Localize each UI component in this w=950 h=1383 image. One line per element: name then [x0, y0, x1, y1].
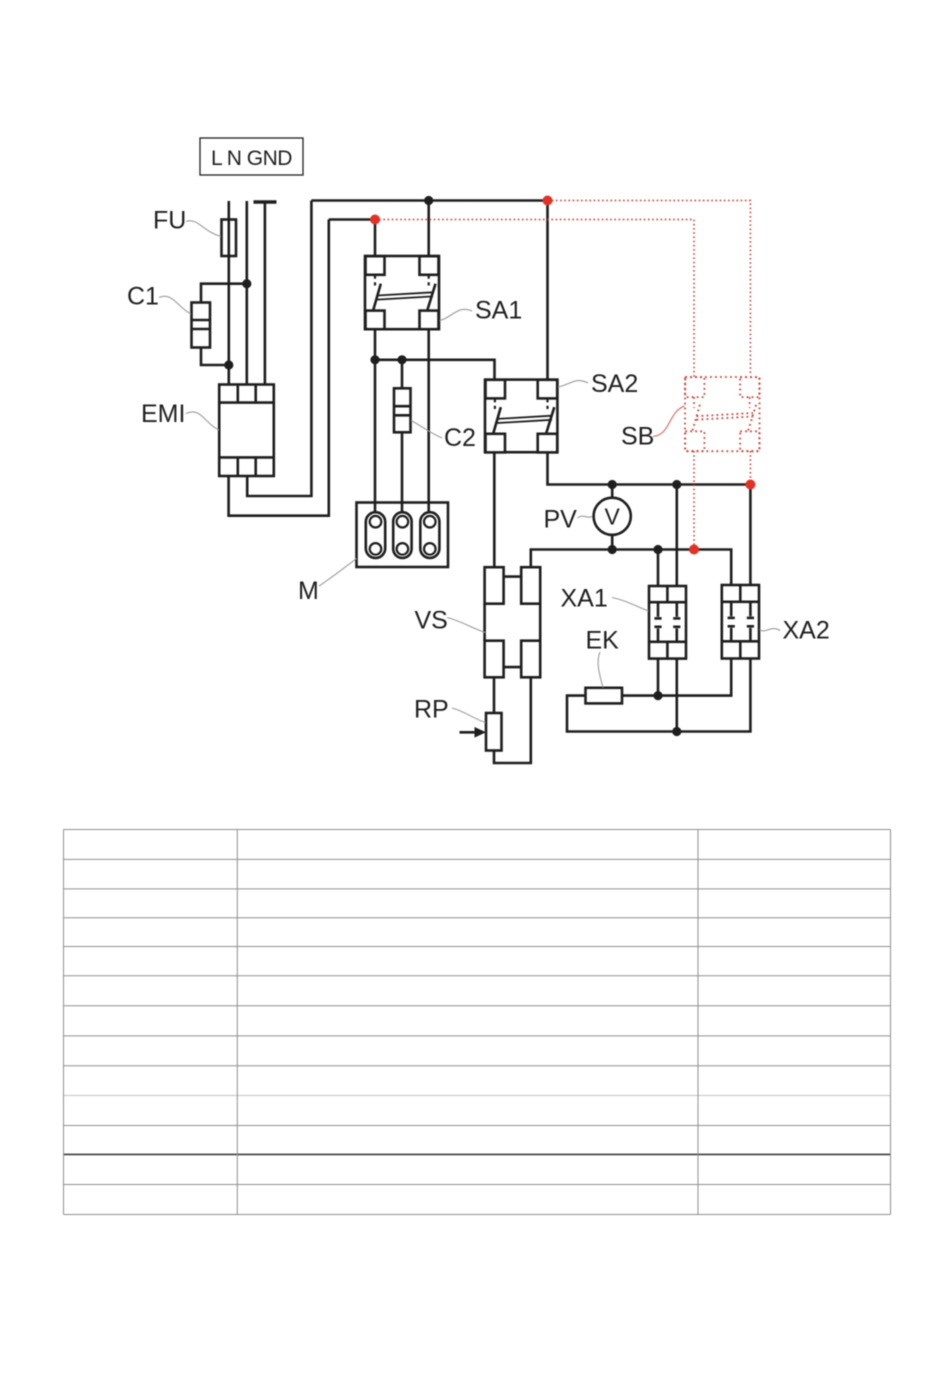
red dotted circuit [375, 201, 750, 550]
node SA1 bottom left junction [370, 355, 379, 364]
svg-text:C1: C1 [127, 283, 159, 311]
svg-text:EK: EK [586, 627, 620, 655]
wire SA2 right pin top [546, 201, 549, 381]
node red XA2 junction [745, 480, 755, 490]
wire lower bus from VS to XA2 [531, 550, 731, 586]
wire red dotted SB right pin lower [749, 451, 751, 485]
wire SA1 right pin to motor [427, 329, 430, 512]
wire rail 1 top [311, 199, 547, 202]
svg-text:SB: SB [621, 423, 654, 451]
wire C2 bottom to motor [401, 432, 404, 512]
node red rail2 junction [370, 215, 380, 225]
svg-text:XA2: XA2 [783, 617, 830, 645]
capacitor C2 [394, 388, 411, 432]
node PV bottom junction [608, 545, 617, 554]
svg-text:RP: RP [414, 696, 449, 724]
capacitor C1 [192, 303, 211, 348]
svg-text:FU: FU [153, 207, 186, 235]
wire XA1 left pin upper [657, 550, 660, 587]
wire C1 top hook to N [201, 284, 247, 303]
node C1 top junction [242, 279, 251, 288]
wire C1 bottom hook to L [201, 348, 229, 366]
node C2 junction [397, 355, 406, 364]
svg-text:L N GND: L N GND [211, 147, 292, 170]
node C1 bottom junction [224, 360, 233, 369]
potentiometer RP [486, 713, 502, 751]
table [64, 830, 891, 1215]
wire PV bottom stub [611, 534, 614, 549]
motor M terminal block [357, 503, 449, 568]
svg-text:VS: VS [415, 607, 448, 635]
wire VS right pin bottom loop [494, 677, 531, 763]
svg-text:SA2: SA2 [591, 370, 638, 398]
node EK bus junction [653, 691, 662, 700]
wire SA1 right pin top [427, 201, 430, 258]
voltmeter PV [594, 498, 631, 535]
node red lower bus junction [689, 545, 699, 555]
wire SA1 left pin top [374, 220, 377, 258]
node XA1 left junction [653, 545, 662, 554]
wire EK left segment and bottom bus [567, 659, 750, 732]
junction dots [224, 196, 681, 736]
wire SA1 left pin bottom to motor [374, 329, 377, 512]
rectifier VS [485, 567, 541, 677]
switch SA1 [365, 256, 439, 329]
wire VS left pin to RP [493, 677, 496, 713]
leader SB red [653, 406, 685, 437]
pushbutton SB (red dotted switch) [685, 377, 760, 451]
node L N GND terminal label box [200, 138, 303, 175]
wire XA1 right pin lower [675, 659, 678, 732]
wire N vertical [246, 201, 249, 385]
svg-text:M: M [298, 577, 319, 605]
svg-text:SA1: SA1 [475, 297, 522, 325]
wire EMI output to riser B and rail 2 [229, 220, 329, 516]
wire EMI output to riser A and rail 1 [247, 201, 311, 497]
wire GND vertical [264, 202, 267, 385]
fuse FU [222, 220, 237, 257]
svg-text:C2: C2 [444, 424, 476, 452]
heater EK [586, 688, 623, 704]
wire rail 2 [329, 218, 375, 221]
wire XA2 right pin upper [749, 485, 752, 586]
arrow RP wiper [460, 731, 478, 734]
svg-text:XA1: XA1 [561, 585, 608, 613]
wire XA2 left pin lower / EK bus [622, 659, 731, 696]
wire XA1 left pin lower [657, 659, 660, 696]
wire PV top stub [611, 485, 614, 498]
svg-text:PV: PV [544, 506, 578, 534]
filter EMI block [219, 385, 274, 477]
connector XA2 [722, 585, 759, 659]
wire red dotted rail 1 to SB right pin [548, 201, 751, 375]
wire SA2 left pin bottom to VS [493, 452, 496, 567]
wire SA1 bottom rail to SA2 [375, 360, 495, 381]
switch SA2 [485, 380, 557, 453]
node XA1 right top junction [672, 480, 681, 489]
svg-text:EMI: EMI [141, 400, 185, 428]
node PV top junction [608, 480, 617, 489]
wire SA2 right pin bottom, top bus [548, 452, 751, 484]
connector XA1 [649, 586, 686, 659]
ground GND bar [254, 200, 277, 203]
node bottom bus junction [672, 727, 681, 736]
wire XA1 right pin upper [675, 485, 678, 587]
node rail1 SA1 junction [424, 196, 433, 205]
wire red dotted SB left pin lower [693, 451, 695, 550]
wire red dotted rail 2 to SB left pin [375, 220, 694, 378]
wire C2 top drop [401, 360, 404, 389]
wire L vertical [228, 201, 231, 385]
node red rail1 junction [543, 196, 553, 206]
svg-text:V: V [605, 504, 621, 530]
leader lines [159, 221, 780, 723]
